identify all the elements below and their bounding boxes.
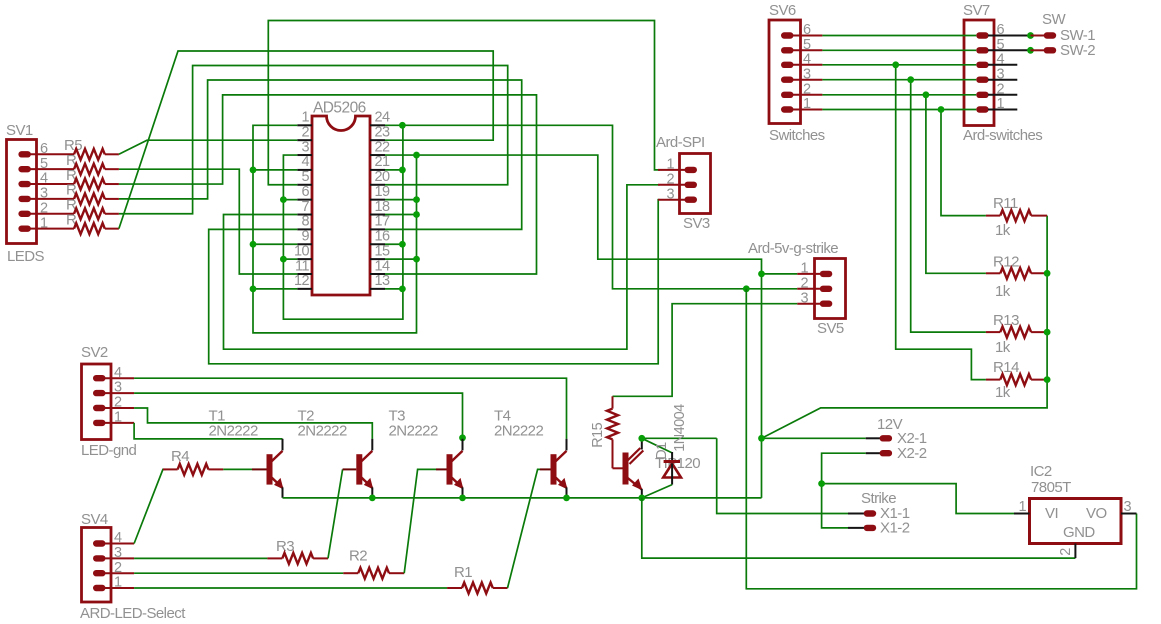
U1 pin 7 stub [297, 214, 312, 216]
svg-text:R11: R11 [993, 195, 1018, 212]
svg-text:SW: SW [1042, 11, 1066, 28]
svg-text:R14: R14 [993, 359, 1019, 376]
svg-text:24: 24 [375, 110, 391, 126]
svg-text:4: 4 [997, 51, 1005, 67]
svg-text:SV5: SV5 [817, 320, 844, 337]
svg-text:SV2: SV2 [81, 344, 108, 361]
SV7 pin 2 [976, 92, 989, 98]
svg-text:7805T: 7805T [1031, 479, 1071, 496]
U1 pin 18 stub [370, 214, 385, 216]
svg-text:9: 9 [301, 229, 309, 245]
SV1 pin 1 [18, 225, 31, 231]
svg-text:4: 4 [301, 154, 309, 170]
wire U1 pin13 from 5V bus [385, 288, 403, 290]
connector SV3 (Ard-SPI) [680, 154, 711, 214]
svg-text:23: 23 [375, 124, 391, 140]
svg-text:SV1: SV1 [6, 122, 33, 139]
connector SV6 (Switches) [769, 20, 801, 124]
wire U1 pin7 to SV3 pin2 [224, 185, 661, 349]
U1 pin 8 stub [297, 228, 312, 230]
SV3 pin 3 [685, 197, 698, 203]
connector SV2 (LED-gnd) [82, 364, 112, 440]
wire U1 pin22 row to ground column [385, 155, 762, 498]
svg-text:4: 4 [40, 171, 48, 187]
svg-text:R15: R15 [590, 422, 606, 447]
svg-text:2: 2 [114, 395, 122, 411]
IC IC2 7805T body [1030, 499, 1122, 544]
junction U1 pin4 bus [250, 167, 257, 174]
U1 pin 1 stub [297, 124, 312, 126]
SV1 pin 5 [18, 166, 31, 172]
IC2 pin 3 stub [1121, 513, 1137, 515]
SV5 pin 3 [820, 301, 833, 307]
svg-text:1k: 1k [995, 222, 1011, 239]
wire res5 to U1 pin11 [119, 169, 297, 274]
svg-text:SV7: SV7 [963, 2, 990, 19]
SV1 pin 4 [18, 181, 31, 187]
svg-text:X2-2: X2-2 [897, 445, 927, 462]
svg-text:1: 1 [40, 215, 48, 231]
junction T2 emitter [369, 495, 376, 502]
svg-text:1: 1 [800, 261, 808, 277]
wire R1 to T4 base (diagonal) [508, 469, 541, 588]
wire res1 to U1 pin23 (long diagonal) [119, 51, 493, 229]
resistor R7 [74, 179, 105, 190]
wire SV2 pin1 to T1 collector [134, 423, 282, 439]
diode D1 1N4004 [663, 452, 681, 485]
connector SV7 (Ard-switches) [964, 20, 994, 126]
wire res4 to U1 pin14 [119, 95, 537, 274]
svg-text:LED-gnd: LED-gnd [81, 442, 137, 459]
SV3 pin 2 [685, 182, 698, 188]
wire 5V bottom bus from SV5 column [746, 289, 1136, 589]
svg-text:1: 1 [997, 96, 1005, 112]
svg-text:X1-2: X1-2 [880, 519, 910, 536]
SV6 pin 5 [781, 47, 794, 53]
wire ground to X2-1 and 12V rail [762, 437, 866, 439]
svg-text:1N4004: 1N4004 [672, 404, 688, 452]
wire diagonal to R11-R14 rail [762, 216, 1048, 439]
wire switch tap 4 to R14 [896, 65, 986, 380]
svg-text:1: 1 [114, 575, 122, 591]
pin X1-1 [848, 513, 865, 515]
transistor T2 2N2222 [356, 439, 373, 498]
svg-text:16: 16 [375, 229, 391, 245]
junction TIP120 emitter / D1 anode [638, 495, 645, 502]
wire U1 pin6 from 5V bus [283, 199, 297, 201]
svg-text:1: 1 [666, 157, 674, 173]
junction U1 pin6 [280, 196, 287, 203]
svg-text:2N2222: 2N2222 [298, 422, 347, 439]
junction tap 2 [923, 91, 930, 98]
svg-text:1k: 1k [995, 384, 1011, 401]
pin X2-1 [866, 437, 880, 439]
wire U1 pin19 from bus [385, 199, 417, 201]
svg-text:R2: R2 [349, 547, 367, 564]
svg-text:2: 2 [800, 275, 808, 291]
wire R4 to T1 base [223, 468, 252, 470]
SV7 pin 1 [976, 106, 989, 112]
wire D1 anode to emitter (diagonal) [642, 485, 672, 498]
resistor R9 [74, 208, 105, 219]
svg-text:Ard-SPI: Ard-SPI [656, 134, 705, 151]
svg-text:1: 1 [1018, 499, 1026, 515]
transistor T4 2N2222 [551, 439, 568, 498]
junction T4 emitter [563, 495, 570, 502]
svg-text:2N2222: 2N2222 [389, 422, 438, 439]
svg-text:Ard-5v-g-strike: Ard-5v-g-strike [748, 240, 838, 257]
junction U1 pin21 [399, 167, 406, 174]
svg-text:2: 2 [997, 81, 1005, 97]
junction U1 pin10 [280, 256, 287, 263]
SV2 pin 3 [93, 390, 106, 396]
svg-text:2: 2 [803, 81, 811, 97]
SV7 pin 3 [976, 77, 989, 83]
svg-text:1k: 1k [995, 339, 1011, 356]
svg-text:IC2: IC2 [1030, 463, 1052, 480]
svg-text:GND: GND [1063, 524, 1095, 541]
SV1 pin 2 [18, 211, 31, 217]
svg-text:5: 5 [40, 156, 48, 172]
junction X2-1 node [758, 435, 765, 442]
SV7 pin 5 [976, 47, 989, 53]
svg-text:3: 3 [800, 290, 808, 306]
wire R2 to T3 base (diagonal) [404, 469, 436, 573]
SV6 pin 2 [781, 92, 794, 98]
resistor R10 [74, 223, 105, 234]
U1 pin 11 stub [297, 273, 312, 275]
SV4 pin 1 [93, 585, 106, 591]
svg-text:22: 22 [375, 139, 391, 155]
connector SV5 (Ard-5v-g-strike) [815, 259, 846, 319]
pin SW-2 [1027, 47, 1034, 54]
SV3 pin 1 [685, 167, 698, 173]
U1 pin 22 stub [370, 154, 385, 156]
svg-text:R1: R1 [454, 564, 472, 581]
transistor Q1 TIP120 [623, 438, 644, 498]
junction R12 rail [1044, 270, 1051, 277]
svg-text:10: 10 [294, 243, 310, 259]
SV6 pin 1 [781, 106, 794, 112]
wire SV2 pin4 to T4 collector [134, 378, 566, 439]
svg-text:17: 17 [375, 214, 391, 230]
junction U1 pin18 bus [413, 211, 420, 218]
svg-text:18: 18 [375, 199, 391, 215]
U1 pin 16 stub [370, 243, 385, 245]
svg-text:3: 3 [1124, 499, 1132, 515]
svg-text:LEDS: LEDS [7, 248, 45, 265]
SV7 pin 6 [976, 32, 989, 38]
svg-text:20: 20 [375, 169, 391, 185]
svg-text:3: 3 [114, 545, 122, 561]
svg-text:5: 5 [301, 169, 309, 185]
U1 pin 17 stub [370, 228, 385, 230]
IC U1 AD5206 body [312, 116, 370, 295]
svg-text:15: 15 [375, 243, 391, 259]
junction U1 pin22 bus [413, 152, 420, 159]
SV4 pin 4 [93, 540, 106, 546]
SV1 pin 3 [18, 196, 31, 202]
svg-text:VO: VO [1086, 505, 1107, 522]
svg-text:1k: 1k [995, 283, 1011, 300]
svg-text:1: 1 [301, 110, 309, 126]
U1 pin 2 stub [297, 139, 312, 141]
connector SV4 (ARD-LED-Select) [82, 528, 112, 603]
junction R13 rail [1044, 329, 1051, 336]
wire SV4 pin1 to R1 [134, 587, 447, 589]
svg-text:3: 3 [666, 186, 674, 202]
svg-text:3: 3 [301, 139, 309, 155]
wire res6 to U1 pin2 (diagonal) [119, 140, 297, 154]
SV2 pin 4 [93, 375, 106, 381]
wire U1 pin5 to SV3 pin1 (top route) [268, 21, 660, 185]
pin SW-1 [1027, 32, 1034, 39]
U1 pin 6 stub [297, 199, 312, 201]
U1 pin 20 stub [370, 184, 385, 186]
wire TIP120 collector node [642, 437, 717, 439]
wire U1 pin8 to SV3 pin3 [209, 200, 660, 364]
U1 pin 13 stub [370, 288, 385, 290]
wire SV6 pin 4 to SV7 [822, 64, 976, 66]
svg-text:4: 4 [114, 365, 122, 381]
wire emitter bus [283, 497, 762, 499]
wire branch to IC2 VI [822, 484, 1014, 514]
junction R14 rail [1044, 376, 1051, 383]
svg-text:4: 4 [114, 530, 122, 546]
U1 pin 14 stub [370, 273, 385, 275]
SV4 pin 3 [93, 555, 106, 561]
transistor T3 2N2222 [447, 439, 464, 498]
U1 pin 10 stub [297, 258, 312, 260]
svg-text:SV4: SV4 [81, 511, 108, 528]
wire SV4 pin3 to R3 [134, 557, 267, 559]
wire SV6 pin 5 to SV7 [822, 49, 976, 51]
wire switch tap 3 to R13 [911, 80, 986, 332]
svg-text:SV3: SV3 [683, 215, 710, 232]
junction U1 pin12 bus [250, 285, 257, 292]
svg-text:11: 11 [295, 258, 309, 274]
junction tap 4 [892, 61, 899, 68]
wire U1 pin12 from bus [253, 288, 297, 290]
pin X2-2 [866, 452, 880, 454]
IC2 pin 1 stub [1014, 513, 1030, 515]
U1 pin 4 stub [297, 169, 312, 171]
SV5 pin 1 [820, 271, 833, 277]
junction U1 pin24 [399, 122, 406, 129]
wire switch tap 1 to R11 [941, 110, 986, 216]
U1 pin 9 stub [297, 243, 312, 245]
junction T3 collector [459, 434, 466, 441]
svg-text:2: 2 [114, 560, 122, 576]
SV6 pin 3 [781, 77, 794, 83]
svg-text:3: 3 [997, 66, 1005, 82]
SV2 pin 1 [93, 420, 106, 426]
svg-text:SV6: SV6 [769, 2, 796, 19]
svg-text:6: 6 [803, 22, 811, 38]
transistor T1 2N2222 [267, 439, 284, 498]
SV1 pin 6 [18, 151, 31, 157]
svg-text:D1: D1 [654, 442, 670, 460]
junction U1 pin16 [399, 241, 406, 248]
wire res3 to U1 pin17 [119, 80, 522, 229]
svg-text:4: 4 [803, 51, 811, 67]
IC2 pin 2 stub [1074, 544, 1076, 559]
U1 pin 3 stub [297, 154, 312, 156]
wire SV6 pin 2 to SV7 [822, 94, 976, 96]
svg-text:SW-2: SW-2 [1060, 42, 1095, 59]
junction TIP120 collector [638, 435, 645, 442]
wire X2-2 to X1-2 and IC2 VI [822, 453, 866, 528]
svg-text:3: 3 [803, 66, 811, 82]
svg-text:2: 2 [40, 200, 48, 216]
SV2 pin 2 [93, 405, 106, 411]
resistor R8 [74, 193, 105, 204]
svg-text:3: 3 [114, 380, 122, 396]
svg-text:2N2222: 2N2222 [494, 422, 543, 439]
svg-text:1: 1 [803, 96, 811, 112]
pin X1-2 [848, 527, 865, 529]
svg-text:VI: VI [1045, 505, 1058, 522]
SV4 pin 2 [93, 570, 106, 576]
svg-text:2: 2 [301, 124, 309, 140]
SV6 pin 6 [781, 32, 794, 38]
wire U1 pin1 bus vertical [253, 125, 417, 333]
junction tap 3 [907, 76, 914, 83]
svg-text:R12: R12 [993, 253, 1019, 270]
svg-text:R13: R13 [993, 312, 1019, 329]
resistor R5 [74, 149, 105, 160]
junction tap 1 [938, 106, 945, 113]
wire SV6 pin 1 to SV7 [822, 109, 976, 111]
wire U1 pin21 from 5V bus [385, 169, 403, 171]
junction U1 pin19 bus [413, 196, 420, 203]
U1 pin 12 stub [297, 288, 312, 290]
svg-text:AD5206: AD5206 [313, 99, 366, 116]
junction T3 emitter [459, 495, 466, 502]
svg-text:Switches: Switches [769, 127, 825, 144]
svg-text:2: 2 [666, 171, 674, 187]
junction X2-2 branch [818, 480, 825, 487]
wire ground drop to bottom bus [642, 498, 1076, 558]
svg-text:8: 8 [301, 214, 309, 230]
svg-text:21: 21 [375, 154, 391, 170]
wire U1 pin3 5V bus vertical [283, 125, 403, 319]
junction SV5 pin1 [758, 271, 765, 278]
wire U1 pin10 from 5V bus [283, 258, 297, 260]
svg-text:ARD-LED-Select: ARD-LED-Select [80, 605, 186, 622]
wire SV5 pin1 from ground column [762, 273, 798, 275]
wire res2 to U1 pin20 [119, 66, 508, 214]
wire U1 pin4 from bus [253, 169, 297, 171]
wire collector to D1 cathode (diagonal) [642, 438, 672, 453]
svg-text:3: 3 [40, 186, 48, 202]
SV6 pin 4 [781, 62, 794, 68]
wire SV2 pin3 to T3 collector [134, 393, 462, 438]
wire SV5 pin3 to R15 [613, 304, 798, 397]
wire SV2 pin2 to T2 collector [134, 408, 372, 439]
svg-text:7: 7 [301, 199, 309, 215]
wire U1 pin9 from bus [253, 243, 297, 245]
svg-text:2N2222: 2N2222 [209, 422, 258, 439]
junction U1 pin9 bus [250, 241, 257, 248]
U1 pin 15 stub [370, 258, 385, 260]
junction U1 pin15 bus [413, 256, 420, 263]
junction U1 pin13 [399, 285, 406, 292]
resistor R6 [74, 164, 105, 175]
U1 pin 5 stub [297, 184, 312, 186]
svg-text:6: 6 [997, 22, 1005, 38]
svg-text:12: 12 [294, 273, 310, 289]
U1 pin 19 stub [370, 199, 385, 201]
wire SV6 pin 3 to SV7 [822, 79, 976, 81]
wire U1 pin15 from bus [385, 258, 417, 260]
svg-text:Ard-switches: Ard-switches [963, 127, 1042, 144]
svg-text:13: 13 [375, 273, 391, 289]
wire SV4 pin4 to R4 (diagonal) [134, 469, 166, 543]
wire U1 pin24 row to SV5 pin2 (5V) [385, 125, 797, 288]
wire SV4 pin2 to R2 [134, 572, 343, 574]
wire SV6 pin 6 to SV7 [822, 35, 976, 37]
U1 pin 21 stub [370, 169, 385, 171]
svg-text:2: 2 [1058, 548, 1074, 556]
SV7 pin 4 [976, 62, 989, 68]
wire U1 pin18 from bus [385, 214, 417, 216]
connector SV1 (LEDS) [7, 140, 37, 244]
wire switch tap 2 to R12 [926, 95, 986, 273]
svg-text:6: 6 [40, 141, 48, 157]
wire collector to X1-1 [717, 438, 848, 513]
U1 pin 23 stub [370, 139, 385, 141]
wire U1 pin16 from 5V bus [385, 243, 403, 245]
svg-text:6: 6 [301, 184, 309, 200]
junction SV5 pin2 (5V) [743, 285, 750, 292]
U1 pin 24 stub [370, 124, 385, 126]
wire R3 to T2 base (diagonal) [328, 469, 343, 558]
svg-text:14: 14 [375, 258, 391, 274]
SV5 pin 2 [820, 286, 833, 292]
svg-text:19: 19 [375, 184, 391, 200]
svg-text:1: 1 [114, 410, 122, 426]
